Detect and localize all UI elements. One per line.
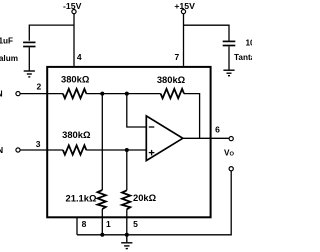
ground (bus) xyxy=(121,235,132,249)
terminal +15V xyxy=(174,1,195,14)
op-amp A1 xyxy=(146,116,183,161)
wire pin7 supply xyxy=(183,14,185,66)
svg-text:0.1uF: 0.1uF xyxy=(0,37,13,46)
svg-text:1: 1 xyxy=(106,219,111,229)
wire inverting node down to R4 xyxy=(101,94,103,190)
node dot noninverting/20k xyxy=(125,148,129,152)
wire R4 to pin1 / bus xyxy=(101,209,103,235)
wire op-amp output to Vo xyxy=(183,137,229,139)
terminal +IN xyxy=(0,145,20,155)
terminal -IN xyxy=(0,89,20,99)
wire -15V branch to bypass cap xyxy=(29,25,74,41)
svg-text:5: 5 xyxy=(133,219,138,229)
wire cap C1 to ground xyxy=(28,47,30,71)
IC outline box U1 xyxy=(47,67,210,217)
svg-text:4: 4 xyxy=(77,52,82,62)
wire R5 to pin5 / bus xyxy=(126,209,128,235)
wire +15V branch to bypass cap xyxy=(184,25,230,40)
svg-text:380kΩ: 380kΩ xyxy=(62,129,91,140)
wire inverting node to op-amp minus input xyxy=(127,94,146,127)
svg-text:Tantalum: Tantalum xyxy=(0,54,18,63)
resistor R2 380k feedback xyxy=(157,74,186,99)
wire cap C2 to ground xyxy=(228,46,230,70)
svg-text:-15V: -15V xyxy=(63,1,82,11)
svg-text:380kΩ: 380kΩ xyxy=(61,74,90,85)
svg-text:380kΩ: 380kΩ xyxy=(157,74,186,85)
wire -IN to R1 xyxy=(20,93,63,95)
wire noninverting node down to R5 xyxy=(126,150,128,190)
wire sense terminal to ground bus xyxy=(77,171,231,235)
svg-text:+IN: +IN xyxy=(0,145,3,155)
svg-text:10uF: 10uF xyxy=(246,39,253,48)
wire pin4 supply xyxy=(73,14,75,66)
wire +IN to R3 xyxy=(20,149,63,151)
wire R2 to output node xyxy=(184,94,200,139)
capacitor C1 0.1uF Tantalum xyxy=(0,37,36,64)
terminal output low / sense xyxy=(229,167,233,171)
ground (right) xyxy=(223,70,234,76)
ground (left) xyxy=(24,71,35,77)
node dot bus pin1 xyxy=(100,233,104,237)
terminal -15V xyxy=(63,1,82,14)
node dot bus pin5 xyxy=(125,233,129,237)
resistor R5 20k xyxy=(122,190,157,209)
svg-text:8: 8 xyxy=(82,219,87,229)
terminal Vo xyxy=(224,137,234,158)
node dot inverting/op-amp xyxy=(125,92,129,96)
svg-text:7: 7 xyxy=(175,52,180,62)
wire pin8 stub xyxy=(76,218,78,235)
capacitor C2 10uF Tantalum xyxy=(223,39,270,62)
wire R1 to R2 (inverting node) xyxy=(86,93,160,95)
svg-text:Tantalum: Tantalum xyxy=(234,53,252,62)
resistor R3 380k xyxy=(62,129,91,155)
svg-text:3: 3 xyxy=(36,139,41,149)
node dot inverting/21.1k xyxy=(100,92,104,96)
resistor R4 21.1k xyxy=(66,190,106,209)
resistor R1 380k xyxy=(61,74,90,99)
svg-text:20kΩ: 20kΩ xyxy=(133,192,157,203)
svg-text:6: 6 xyxy=(215,125,220,135)
svg-text:-IN: -IN xyxy=(0,89,3,99)
wire R3 to op-amp plus input xyxy=(86,149,146,151)
svg-text:2: 2 xyxy=(37,82,42,92)
svg-text:21.1kΩ: 21.1kΩ xyxy=(66,192,97,203)
